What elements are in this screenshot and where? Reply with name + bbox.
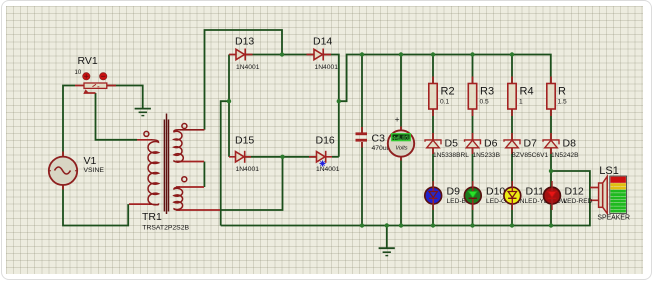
svg-text:1N4001: 1N4001 [236, 64, 260, 71]
svg-text:1: 1 [519, 98, 523, 105]
svg-text:+4.01: +4.01 [393, 135, 410, 142]
svg-text:TRSAT2P2S2B: TRSAT2P2S2B [142, 224, 189, 231]
svg-text:D12: D12 [565, 185, 584, 197]
svg-text:D10: D10 [486, 185, 505, 197]
svg-text:1N4001: 1N4001 [315, 64, 339, 71]
svg-text:1.5: 1.5 [558, 98, 567, 105]
svg-text:VSINE: VSINE [84, 167, 105, 174]
svg-text:D6: D6 [484, 138, 498, 150]
svg-text:D13: D13 [235, 36, 254, 48]
svg-text:D14: D14 [313, 36, 332, 48]
svg-text:SPEAKER: SPEAKER [597, 214, 630, 221]
svg-text:TR1: TR1 [142, 211, 162, 223]
svg-text:1N5242B: 1N5242B [551, 152, 579, 159]
svg-text:R: R [558, 86, 566, 98]
svg-text:D9: D9 [447, 185, 461, 197]
svg-text:D15: D15 [235, 135, 254, 147]
svg-text:RV1: RV1 [78, 55, 98, 67]
svg-text:+: + [395, 115, 400, 124]
svg-text:D7: D7 [524, 138, 538, 150]
svg-text:1N5233B: 1N5233B [473, 152, 501, 159]
svg-text:0.1: 0.1 [440, 98, 449, 105]
svg-text:LED-RED: LED-RED [564, 198, 593, 205]
svg-text:LS1: LS1 [599, 165, 619, 177]
svg-text:R4: R4 [520, 86, 534, 98]
svg-text:D8: D8 [563, 138, 577, 150]
svg-text:1N4001: 1N4001 [236, 166, 260, 173]
svg-text:0.5: 0.5 [480, 98, 489, 105]
svg-text:R3: R3 [480, 86, 494, 98]
svg-text:Volts: Volts [395, 146, 407, 152]
svg-text:10: 10 [75, 70, 82, 76]
svg-text:V1: V1 [84, 155, 97, 167]
svg-text:BZV85C6V1: BZV85C6V1 [512, 152, 549, 159]
svg-text:D5: D5 [445, 138, 459, 150]
svg-text:D11: D11 [526, 185, 545, 197]
svg-text:1N5338BRL: 1N5338BRL [433, 152, 469, 159]
svg-text:R2: R2 [441, 86, 455, 98]
svg-text:1N4001: 1N4001 [316, 166, 340, 173]
svg-text:C3: C3 [372, 133, 386, 145]
svg-text:D16: D16 [316, 135, 335, 147]
